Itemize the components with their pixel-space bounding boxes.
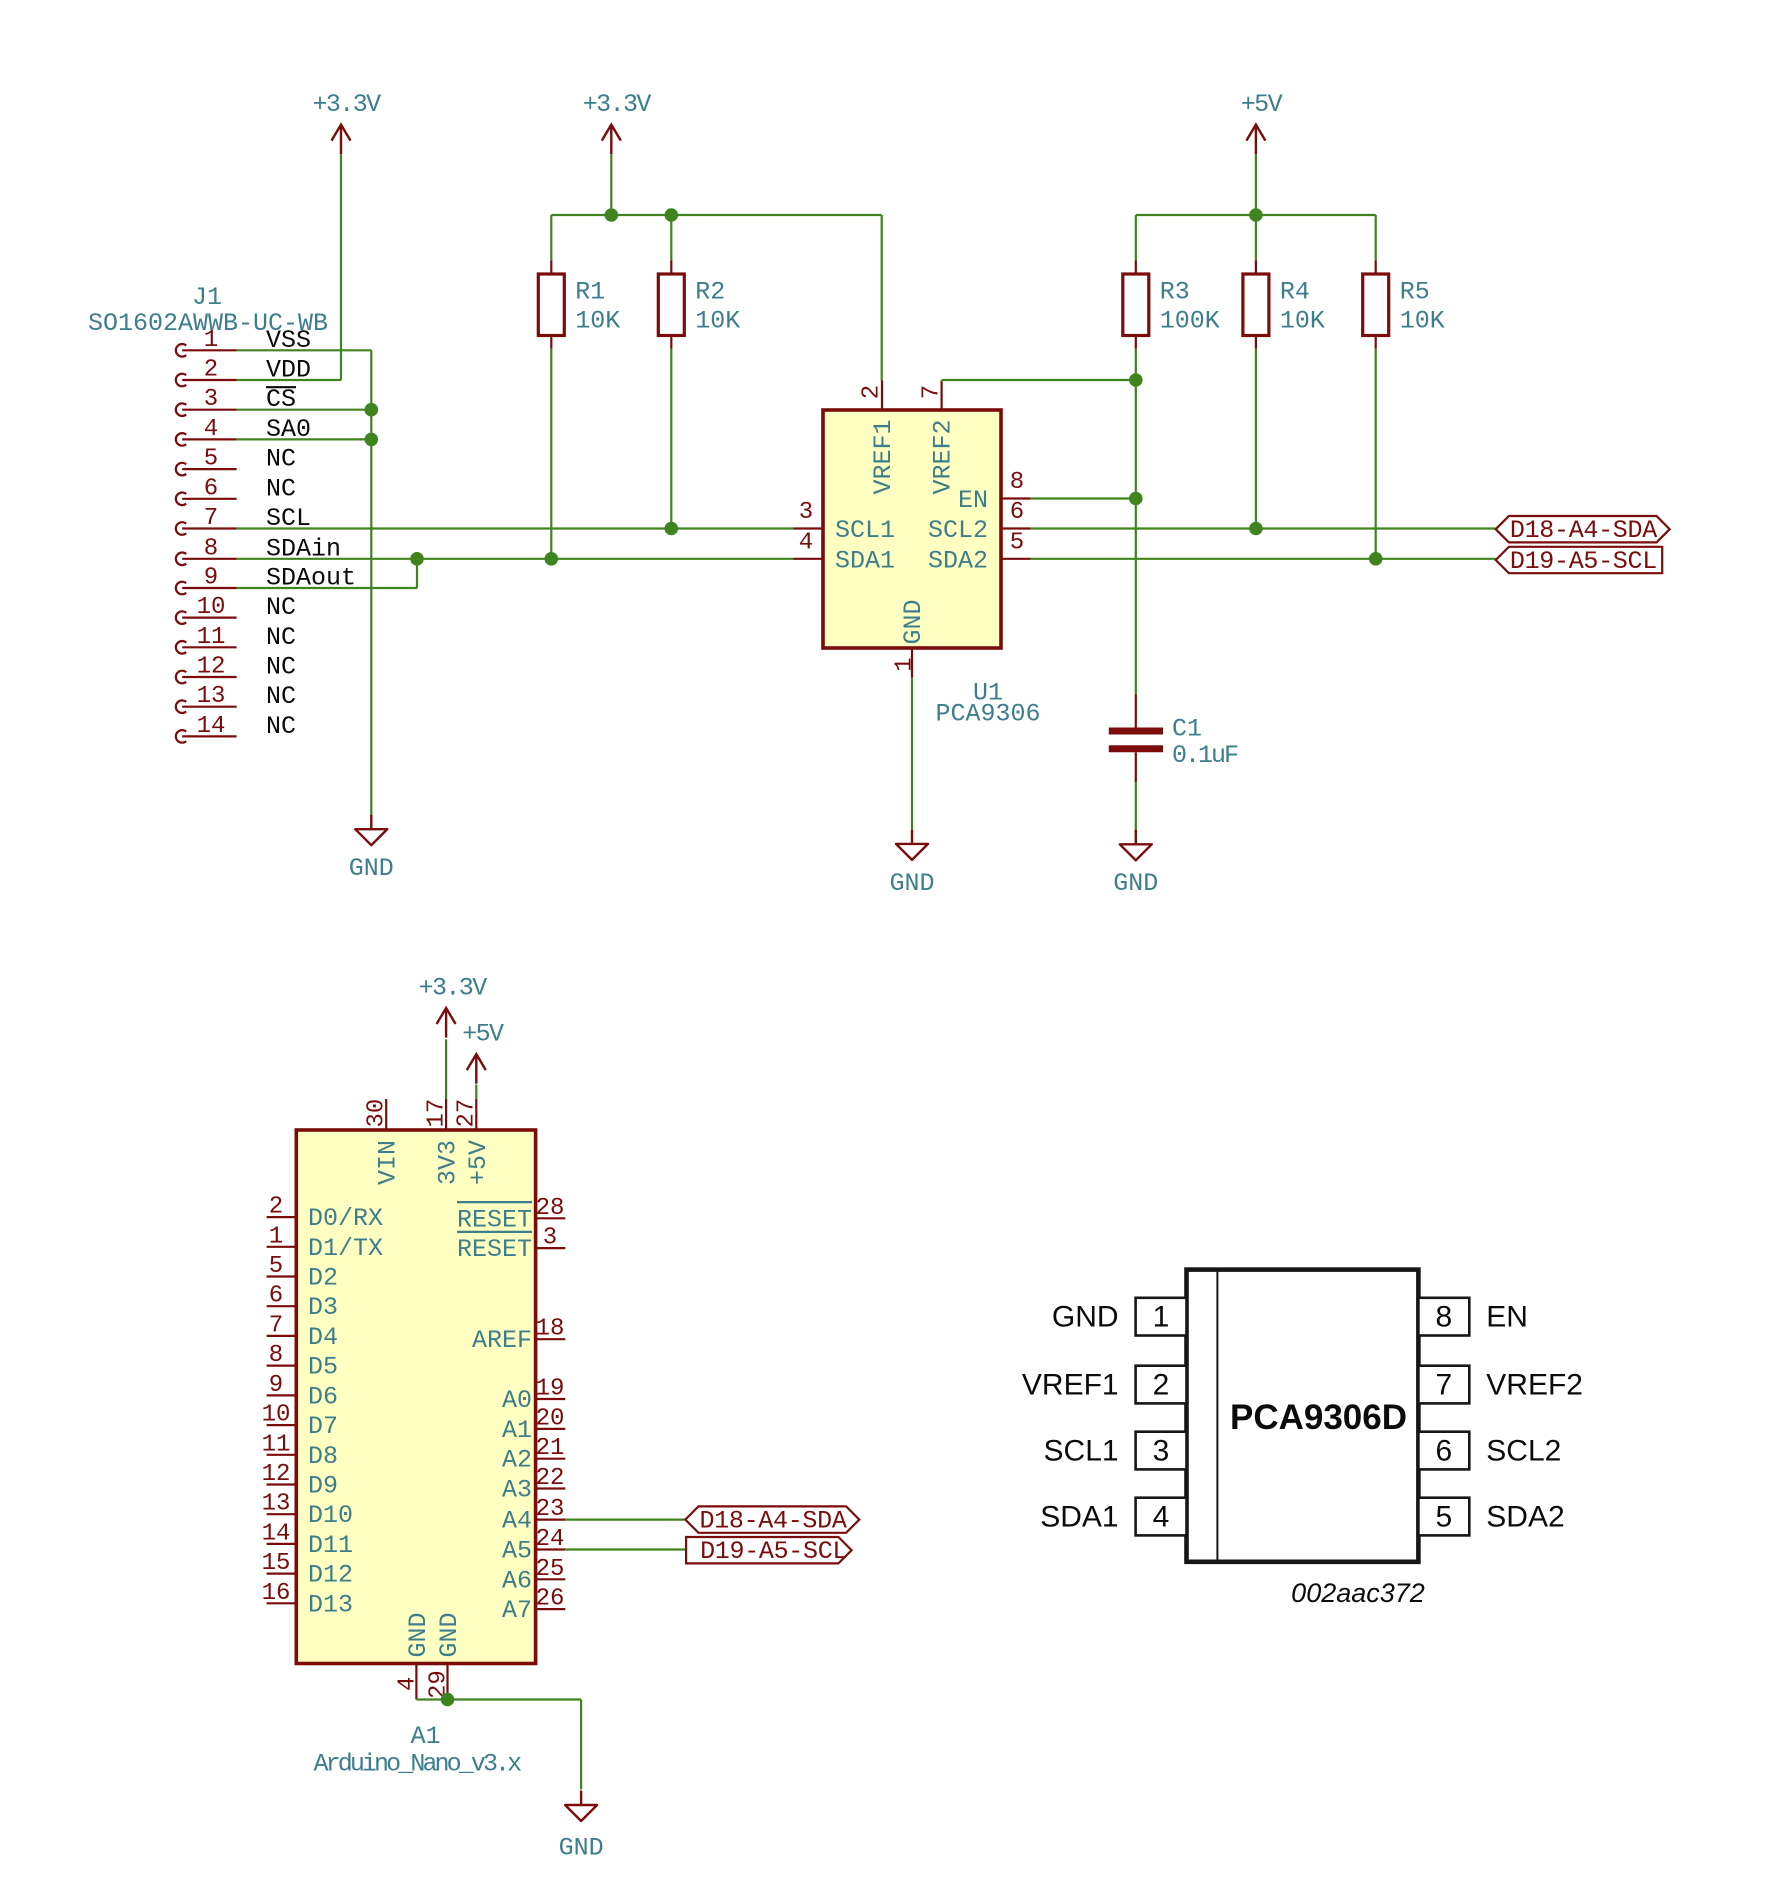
svg-text:A2: A2 [502,1446,532,1475]
svg-text:21: 21 [536,1435,565,1462]
svg-text:13: 13 [197,683,226,710]
junction R2 / SCL net [665,522,679,536]
svg-text:7: 7 [1435,1369,1452,1402]
svg-text:D7: D7 [308,1412,338,1441]
svg-text:7: 7 [204,505,218,532]
wire 3.3V rail horizontal [551,214,881,216]
svg-text:NC: NC [266,593,296,622]
svg-text:NC: NC [266,653,296,682]
wire 3V3 pin vertical [445,1039,447,1099]
svg-text:6: 6 [1010,499,1024,526]
A1 pin 10 D7 [262,1402,338,1442]
svg-text:D3: D3 [308,1293,338,1322]
A1 pin 28 RESET [457,1195,565,1235]
wire SA0 pin4 [237,438,372,440]
connector J1 pin 10 NC [176,593,296,624]
junction R5 / SDA2 net [1369,552,1383,566]
svg-text:3: 3 [1153,1435,1170,1468]
svg-text:8: 8 [269,1342,283,1369]
net label D19-A5-SCL (right) [1496,547,1663,576]
svg-text:14: 14 [262,1520,291,1547]
svg-text:D18-A4-SDA: D18-A4-SDA [700,1507,847,1536]
wire R4 bottom to SCL2 net [1255,349,1257,529]
A1 pin 6 D3 [267,1283,338,1323]
junction R4 / SCL2 net [1249,522,1263,536]
svg-text:+5V: +5V [1241,90,1283,119]
A1 pin 25 A6 [502,1556,565,1596]
connector J1 pin 3 CS [176,385,296,416]
svg-text:GND: GND [1113,869,1158,898]
package pin 1 GND [1052,1298,1187,1336]
wire R2 bottom to SCL net [670,349,672,529]
svg-text:VIN: VIN [374,1140,403,1185]
A1 top pin 27 +5V [454,1099,493,1185]
svg-text:6: 6 [269,1283,283,1310]
power +3.3V symbol (R1 R2 rail) [583,90,652,154]
wire VREF2 to R3 net [942,379,1136,381]
svg-text:6: 6 [204,475,218,502]
wire R3 bottom down to C1 [1135,349,1137,695]
power +5V symbol (Arduino) [462,1020,504,1084]
A1 pin 13 D10 [262,1491,353,1531]
A1 pin 11 D8 [262,1431,338,1471]
svg-text:0.1uF: 0.1uF [1172,741,1238,770]
svg-text:15: 15 [262,1550,291,1577]
svg-text:GND: GND [435,1612,464,1657]
svg-text:+3.3V: +3.3V [419,974,488,1003]
resistor R5 10K [1363,260,1445,349]
A1 pin 20 A1 [502,1405,565,1445]
svg-text:12: 12 [262,1461,291,1488]
wire rail down to R2 [670,215,672,260]
svg-text:D2: D2 [308,1264,338,1293]
wire A1 GND vertical [580,1700,582,1790]
capacitor C1 0.1uF [1109,695,1238,783]
A1 pin 12 D9 [262,1461,338,1501]
svg-text:+5V: +5V [462,1020,504,1049]
svg-text:8: 8 [1435,1301,1452,1334]
wire SDA2 to flag D19 [1031,558,1496,560]
A1 pin 23 A4 [502,1496,565,1536]
wire rail down to R5 [1375,215,1377,260]
svg-text:24: 24 [536,1526,565,1553]
A1 pin 19 A0 [502,1376,565,1416]
svg-text:R1: R1 [575,277,605,306]
svg-text:NC: NC [266,682,296,711]
svg-text:9: 9 [269,1372,283,1399]
package pin 2 VREF1 [1022,1366,1187,1404]
U1 pin 1 GND [892,599,929,677]
svg-text:GND: GND [889,869,934,898]
svg-text:002aac372: 002aac372 [1291,1578,1425,1608]
svg-text:AREF: AREF [472,1326,532,1355]
svg-text:10K: 10K [575,306,620,335]
svg-text:22: 22 [536,1465,565,1492]
svg-text:D19-A5-SCL: D19-A5-SCL [1510,547,1657,576]
svg-text:SDA2: SDA2 [1486,1501,1564,1534]
svg-text:+3.3V: +3.3V [583,90,652,119]
svg-text:A1: A1 [502,1416,532,1445]
svg-text:GND: GND [899,599,928,644]
svg-text:19: 19 [536,1376,565,1403]
svg-text:17: 17 [424,1099,451,1128]
junction GND pins A1 [441,1693,455,1707]
svg-text:A7: A7 [502,1596,532,1625]
wire VDD pin2 horizontal [237,379,341,381]
wire R5 bottom to SDA2 net [1375,349,1377,559]
svg-text:30: 30 [364,1099,391,1128]
svg-text:D12: D12 [308,1561,353,1590]
A1 pin 9 D6 [267,1372,338,1412]
svg-text:R3: R3 [1160,277,1190,306]
junction 5V rail / stem [1249,208,1263,222]
svg-text:2: 2 [859,385,886,399]
net label D19-A5-SCL (Arduino) [686,1537,852,1566]
svg-text:D8: D8 [308,1442,338,1471]
svg-text:GND: GND [559,1834,604,1863]
op-amp U1 PCA9306 body [823,410,1001,648]
svg-text:4: 4 [1153,1501,1170,1534]
ground GND (J1 net) [349,815,394,883]
wire EN to R3 net [1031,497,1136,499]
svg-text:D19-A5-SCL: D19-A5-SCL [700,1537,847,1566]
svg-text:9: 9 [204,565,218,592]
A1 top pin 17 3V3 [424,1099,463,1185]
power +3.3V symbol (J1) [312,90,381,154]
svg-text:RESET: RESET [457,1205,532,1234]
svg-text:SCL2: SCL2 [928,516,988,545]
wire rail to VREF1 corner [881,215,883,380]
svg-text:10K: 10K [695,306,740,335]
A1 pin 7 D4 [267,1312,338,1352]
svg-text:VREF1: VREF1 [869,419,898,494]
svg-text:2: 2 [1153,1369,1170,1402]
A1 pin 14 D11 [262,1520,353,1560]
svg-text:7: 7 [269,1312,283,1339]
connector J1 pin 9 SDAout [176,564,356,595]
A1 pin 8 D5 [267,1342,338,1382]
svg-text:100K: 100K [1160,306,1220,335]
U1 pin 8 EN [958,469,1031,515]
svg-text:3: 3 [799,499,813,526]
svg-text:D10: D10 [308,1501,353,1530]
svg-text:6: 6 [1435,1435,1452,1468]
A1 bottom pin 29 GND [426,1612,465,1699]
svg-text:D0/RX: D0/RX [308,1204,383,1233]
svg-text:11: 11 [197,624,226,651]
A1 pin 3 RESET [457,1225,565,1265]
net label D18-A4-SDA (right) [1496,516,1670,545]
connector J1 pin 2 VDD [176,356,311,387]
connector J1 pin 1 VSS [176,326,311,357]
svg-text:RESET: RESET [457,1235,532,1264]
svg-text:13: 13 [262,1491,291,1518]
svg-text:3: 3 [204,386,218,413]
svg-text:10: 10 [197,594,226,621]
svg-text:4: 4 [394,1677,421,1691]
svg-text:16: 16 [262,1580,291,1607]
svg-text:12: 12 [197,654,226,681]
package pin 4 SDA1 [1040,1498,1186,1536]
connector J1 pin 13 NC [176,682,296,713]
wire rail down to R4 [1255,215,1257,260]
wire rail down to R1 [550,215,552,260]
A1 pin 1 D1/TX [267,1223,383,1263]
wire CS pin3 [237,409,372,411]
svg-text:D4: D4 [308,1323,338,1352]
connector J1 pin 11 NC [176,623,296,654]
svg-text:3V3: 3V3 [434,1140,463,1185]
svg-text:1: 1 [1153,1301,1170,1334]
package pin 6 SCL2 [1418,1432,1561,1470]
U1 pin 5 SDA2 [928,529,1031,575]
svg-text:8: 8 [204,535,218,562]
svg-text:10K: 10K [1280,306,1325,335]
junction VREF2 / R3 net [1129,373,1143,387]
A1 pin 5 D2 [267,1253,338,1293]
svg-text:SCL2: SCL2 [1486,1435,1561,1468]
connector J1 pin 12 NC [176,653,296,684]
svg-text:18: 18 [536,1316,565,1343]
ground GND (C1) [1113,830,1158,898]
svg-text:PCA9306D: PCA9306D [1230,1398,1407,1437]
connector J1 pin 8 SDAin [176,534,341,565]
svg-text:D18-A4-SDA: D18-A4-SDA [1510,516,1657,545]
svg-text:VREF2: VREF2 [1486,1369,1583,1402]
svg-text:27: 27 [454,1099,481,1128]
svg-text:5: 5 [204,446,218,473]
connector J1 pin 5 NC [176,445,296,476]
svg-text:3: 3 [543,1225,557,1252]
svg-text:GND: GND [349,854,394,883]
svg-text:EN: EN [1486,1301,1528,1334]
U1 pin 7 VREF2 [918,380,957,494]
svg-text:D5: D5 [308,1353,338,1382]
resistor R2 10K [658,260,740,349]
svg-text:EN: EN [958,486,988,515]
wire C1 bottom to GND [1135,782,1137,834]
svg-text:5: 5 [269,1253,283,1280]
svg-text:1: 1 [269,1223,283,1250]
A1 pin 15 D12 [262,1550,353,1590]
power +5V symbol (rail) [1241,90,1283,154]
wire SCL net J1.7 to U1 SCL1 [237,527,794,529]
svg-text:R4: R4 [1280,277,1310,306]
svg-text:GND: GND [1052,1301,1119,1334]
Arduino A1 body [296,1130,535,1664]
net label D18-A4-SDA (Arduino) [685,1506,859,1535]
resistor R3 100K [1123,260,1220,349]
svg-text:10K: 10K [1400,306,1445,335]
wire SDAout pin9 horizontal [237,587,417,589]
A1 pin 18 AREF [472,1316,565,1356]
A1 pin 21 A2 [502,1435,565,1475]
wire VSS pin1 horizontal [237,349,372,351]
wire R1 bottom to SDA net [550,349,552,559]
package pin 7 VREF2 [1418,1366,1583,1404]
junction 3.3V rail / stem [605,208,619,222]
connector J1 pin 6 NC [176,474,296,505]
svg-text:A4: A4 [502,1507,532,1536]
ground GND (U1) [889,829,934,898]
svg-text:+5V: +5V [464,1140,493,1185]
wire A5 to flag D19 [565,1548,686,1550]
junction R1 / SDA net [545,552,559,566]
svg-text:A6: A6 [502,1566,532,1595]
svg-text:Arduino_Nano_v3.x: Arduino_Nano_v3.x [314,1750,522,1779]
A1 bottom pin 4 GND [394,1612,433,1699]
resistor R1 10K [538,260,620,349]
svg-text:NC: NC [266,712,296,741]
svg-text:NC: NC [266,623,296,652]
svg-text:GND: GND [404,1612,433,1657]
svg-text:23: 23 [536,1496,565,1523]
svg-text:26: 26 [536,1586,565,1613]
package pin 5 SDA2 [1418,1498,1564,1536]
svg-text:+3.3V: +3.3V [312,90,381,119]
svg-text:SDA2: SDA2 [928,546,988,575]
svg-text:R5: R5 [1400,277,1430,306]
svg-text:D1/TX: D1/TX [308,1234,383,1263]
A1 top pin 30 VIN [364,1099,403,1185]
svg-text:7: 7 [918,385,945,399]
svg-text:D11: D11 [308,1531,353,1560]
wire 5V rail horizontal [1136,214,1376,216]
package pin 3 SCL1 [1044,1432,1187,1470]
wire VREF2 stub [940,380,942,382]
U1 pin 6 SCL2 [928,499,1031,545]
wire +3.3V to VDD vertical [340,154,342,380]
svg-text:A0: A0 [502,1386,532,1415]
svg-text:SCL1: SCL1 [1044,1435,1119,1468]
svg-text:28: 28 [536,1195,565,1222]
U1 pin 2 VREF1 [859,380,899,494]
connector J1 pin 4 SA0 [176,415,311,446]
U1 pin 4 SDA1 [793,529,895,575]
svg-text:SDA1: SDA1 [835,546,895,575]
svg-text:C1: C1 [1172,715,1202,744]
junction SA0 / VSS net [365,433,379,447]
A1 pin 16 D13 [262,1580,353,1620]
svg-text:2: 2 [269,1194,283,1221]
svg-text:D13: D13 [308,1590,353,1619]
svg-text:4: 4 [799,529,813,556]
svg-text:D9: D9 [308,1472,338,1501]
A1 pin 26 A7 [502,1586,565,1626]
svg-text:J1: J1 [192,283,222,312]
wire +3.3V stem [610,154,612,215]
svg-text:8: 8 [1010,469,1024,496]
svg-text:A1: A1 [411,1722,441,1751]
A1 pin 22 A3 [502,1465,565,1505]
wire VSS net vertical to GND [370,350,372,815]
junction EN / R3 net [1129,492,1143,506]
svg-text:NC: NC [266,445,296,474]
svg-text:5: 5 [1435,1501,1452,1534]
ground GND (A1) [559,1791,604,1863]
svg-text:SCL1: SCL1 [835,516,895,545]
connector J1 pin 14 NC [176,712,296,743]
wire U1 GND pin down [911,678,913,830]
A1 pin 2 D0/RX [267,1194,383,1234]
U1 pin 3 SCL1 [793,499,895,545]
svg-text:SDA1: SDA1 [1040,1501,1118,1534]
svg-text:1: 1 [204,327,218,354]
svg-text:2: 2 [204,357,218,384]
wire A4 to flag D18 [565,1518,685,1520]
svg-text:D6: D6 [308,1382,338,1411]
svg-text:25: 25 [536,1556,565,1583]
wire A1 GND horizontal [416,1698,581,1700]
svg-text:A5: A5 [502,1537,532,1566]
wire +5V pin vertical [475,1085,477,1100]
package pin 8 EN [1418,1298,1528,1336]
junction CS / VSS net [365,403,379,417]
IC package PCA9306D body [1187,1270,1419,1562]
svg-text:11: 11 [262,1431,291,1458]
resistor R4 10K [1243,260,1325,349]
svg-text:VREF2: VREF2 [929,419,958,494]
A1 pin 24 A5 [502,1526,565,1566]
power +3.3V symbol (Arduino) [419,974,488,1038]
svg-text:PCA9306: PCA9306 [935,700,1040,729]
wire rail down to R3 [1135,215,1137,260]
junction 3.3V rail / R2 [665,208,679,222]
wire SDA net J1.8 to U1 SDA1 [237,558,794,560]
svg-text:10: 10 [262,1402,291,1429]
svg-text:5: 5 [1010,529,1024,556]
wire +5V stem [1255,154,1257,215]
wire SDAout up to SDA net [416,559,418,588]
svg-text:1: 1 [892,657,919,671]
svg-text:VREF1: VREF1 [1022,1369,1119,1402]
svg-text:A3: A3 [502,1476,532,1505]
connector J1 pin 7 SCL [176,504,311,535]
svg-text:4: 4 [204,416,218,443]
svg-text:14: 14 [197,713,226,740]
svg-text:R2: R2 [695,277,725,306]
svg-text:NC: NC [266,474,296,503]
wire SCL2 to flag D18 [1031,527,1496,529]
svg-text:20: 20 [536,1405,565,1432]
junction SDAout / SDA net [410,552,424,566]
